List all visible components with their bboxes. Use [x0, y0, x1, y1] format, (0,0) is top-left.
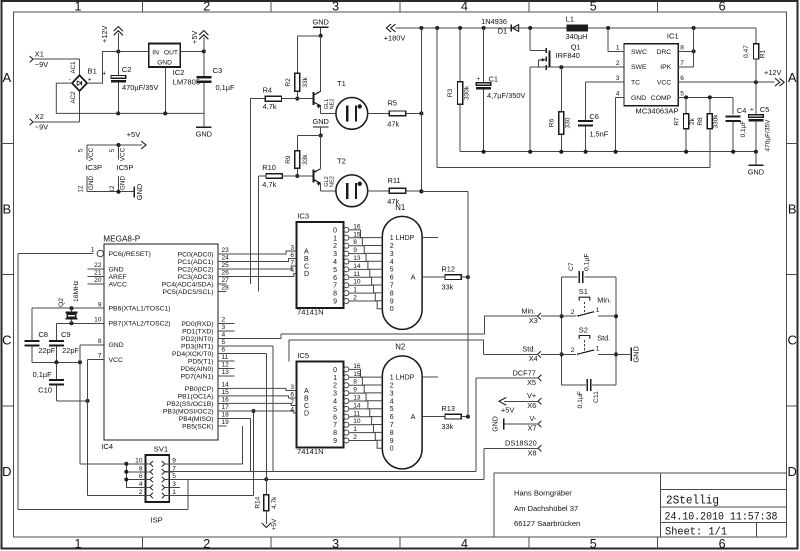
svg-text:VCC: VCC	[109, 357, 123, 364]
svg-text:3: 3	[222, 324, 226, 331]
svg-text:8: 8	[353, 379, 357, 386]
svg-text:2: 2	[571, 309, 575, 316]
svg-text:C: C	[2, 333, 11, 348]
svg-text:3: 3	[616, 75, 620, 82]
svg-text:1: 1	[333, 375, 337, 382]
svg-text:6: 6	[222, 347, 226, 354]
svg-text:MC34063AP: MC34063AP	[635, 107, 678, 116]
svg-text:R5: R5	[388, 99, 397, 108]
svg-text:15: 15	[222, 389, 230, 396]
svg-text:7: 7	[333, 283, 337, 290]
svg-text:2: 2	[333, 383, 337, 390]
svg-text:10: 10	[353, 279, 361, 286]
svg-text:C2: C2	[122, 65, 132, 74]
svg-text:Q2: Q2	[58, 298, 65, 307]
svg-text:C: C	[304, 403, 309, 410]
svg-text:IC5: IC5	[297, 351, 309, 360]
svg-text:21: 21	[94, 270, 102, 277]
svg-text:PB1(OC1A): PB1(OC1A)	[178, 393, 214, 400]
svg-text:C11: C11	[593, 391, 600, 403]
svg-text:0: 0	[333, 367, 337, 374]
svg-text:9: 9	[353, 387, 357, 394]
svg-text:A: A	[304, 388, 309, 395]
svg-text:~9V: ~9V	[35, 123, 48, 132]
svg-text:PD3(INT1): PD3(INT1)	[181, 343, 213, 350]
svg-text:5: 5	[333, 406, 337, 413]
svg-text:PD2(INT0): PD2(INT0)	[181, 336, 213, 343]
svg-text:2: 2	[353, 295, 357, 302]
svg-text:C10: C10	[38, 385, 52, 394]
svg-text:1: 1	[74, 537, 81, 551]
svg-text:0,1µF: 0,1µF	[577, 391, 584, 409]
svg-text:R9: R9	[285, 155, 292, 164]
svg-text:6: 6	[680, 75, 684, 82]
svg-text:16MHz: 16MHz	[73, 280, 80, 302]
svg-text:1,5nF: 1,5nF	[589, 129, 608, 138]
svg-text:7: 7	[290, 399, 294, 406]
svg-text:SV1: SV1	[154, 445, 168, 454]
svg-text:9: 9	[333, 299, 337, 306]
svg-text:4: 4	[290, 267, 294, 274]
svg-text:X4: X4	[529, 354, 538, 363]
svg-text:DS18S20: DS18S20	[505, 439, 537, 448]
svg-text:IC4: IC4	[101, 442, 113, 451]
svg-text:PD6(AIN0): PD6(AIN0)	[181, 366, 214, 373]
svg-text:ISP: ISP	[151, 515, 163, 524]
svg-text:GND: GND	[748, 168, 764, 177]
svg-text:AVCC: AVCC	[109, 281, 127, 288]
svg-text:LM7805: LM7805	[173, 78, 200, 87]
svg-text:R12: R12	[441, 265, 455, 274]
svg-text:4,7µF/350V: 4,7µF/350V	[487, 91, 525, 100]
svg-text:9: 9	[390, 298, 394, 305]
svg-text:5: 5	[680, 91, 684, 98]
svg-text:18: 18	[222, 412, 230, 419]
svg-text:1 LHDP: 1 LHDP	[390, 235, 415, 242]
svg-text:-: -	[69, 76, 71, 83]
svg-text:3: 3	[290, 384, 294, 391]
svg-text:V-: V-	[529, 414, 537, 423]
svg-text:PD4(XCK/T0): PD4(XCK/T0)	[172, 351, 214, 358]
svg-text:AC2: AC2	[70, 91, 77, 104]
svg-text:5: 5	[590, 537, 597, 551]
svg-text:T2: T2	[337, 156, 346, 165]
svg-text:D1: D1	[498, 27, 507, 36]
svg-text:R10: R10	[262, 163, 276, 172]
svg-text:47k: 47k	[387, 197, 399, 206]
svg-text:IC1: IC1	[667, 31, 679, 40]
svg-text:22: 22	[94, 262, 102, 269]
svg-text:PB3(MOSI/OC2): PB3(MOSI/OC2)	[163, 408, 214, 415]
svg-text:Min.: Min.	[521, 306, 535, 315]
svg-text:7: 7	[333, 422, 337, 429]
svg-text:B: B	[788, 201, 797, 216]
svg-text:C7: C7	[568, 262, 575, 271]
svg-text:12: 12	[78, 185, 85, 193]
svg-text:+: +	[750, 107, 754, 114]
svg-text:X3: X3	[529, 316, 538, 325]
svg-text:1: 1	[353, 287, 357, 294]
svg-text:DRC: DRC	[656, 49, 671, 56]
svg-text:GND: GND	[109, 342, 124, 349]
svg-text:PC1(ADC1): PC1(ADC1)	[178, 259, 214, 266]
svg-text:33k: 33k	[302, 154, 309, 165]
svg-text:4: 4	[616, 91, 620, 98]
svg-text:11: 11	[353, 271, 360, 278]
svg-text:2: 2	[353, 434, 357, 441]
svg-text:4: 4	[139, 481, 143, 488]
svg-text:3: 3	[390, 390, 394, 397]
svg-text:33k: 33k	[302, 76, 309, 87]
svg-text:6: 6	[290, 252, 294, 259]
svg-text:PB6(XTAL1/TOSC1): PB6(XTAL1/TOSC1)	[109, 306, 171, 313]
svg-text:13: 13	[353, 395, 361, 402]
svg-text:4: 4	[390, 259, 394, 266]
svg-text:28: 28	[222, 285, 230, 292]
svg-text:OUT: OUT	[164, 49, 178, 56]
svg-text:3: 3	[290, 245, 294, 252]
svg-text:PC6(/RESET): PC6(/RESET)	[109, 251, 151, 258]
svg-text:9: 9	[390, 438, 394, 445]
svg-text:1: 1	[333, 235, 337, 242]
svg-text:14: 14	[353, 402, 361, 409]
svg-text:10: 10	[353, 418, 361, 425]
svg-text:2: 2	[203, 0, 210, 14]
svg-text:470µF/35V: 470µF/35V	[122, 83, 158, 92]
svg-text:X5: X5	[527, 378, 536, 387]
svg-text:PC2(ADC2): PC2(ADC2)	[178, 266, 214, 273]
svg-text:GND: GND	[88, 176, 95, 191]
svg-text:14: 14	[222, 382, 230, 389]
svg-text:MEGA8-P: MEGA8-P	[103, 235, 140, 244]
svg-text:VCC: VCC	[657, 79, 671, 86]
svg-text:DCF77: DCF77	[512, 369, 535, 378]
svg-text:6: 6	[390, 275, 394, 282]
svg-text:B: B	[304, 396, 309, 403]
svg-text:+12V: +12V	[100, 25, 109, 43]
svg-text:R1: R1	[760, 49, 767, 58]
svg-text:X1: X1	[35, 49, 44, 58]
svg-text:1: 1	[172, 489, 176, 496]
svg-text:+5V: +5V	[127, 130, 142, 139]
svg-text:2: 2	[571, 347, 575, 354]
svg-text:5: 5	[222, 339, 226, 346]
svg-text:33k: 33k	[441, 282, 453, 291]
svg-text:6: 6	[333, 275, 337, 282]
svg-text:9: 9	[172, 457, 176, 464]
svg-text:0,1µF: 0,1µF	[33, 370, 53, 379]
svg-text:PD0(RXD): PD0(RXD)	[181, 321, 213, 328]
svg-text:Std.: Std.	[522, 345, 535, 354]
svg-text:Am Dachshübel 37: Am Dachshübel 37	[514, 504, 578, 513]
svg-text:X8: X8	[527, 448, 536, 457]
svg-text:6: 6	[333, 414, 337, 421]
svg-text:6: 6	[290, 392, 294, 399]
svg-text:4,7k: 4,7k	[263, 102, 277, 111]
svg-text:3: 3	[332, 537, 339, 551]
svg-text:Min.: Min.	[597, 295, 611, 304]
svg-text:17: 17	[222, 404, 230, 411]
svg-text:GND: GND	[196, 130, 212, 139]
svg-text:8: 8	[680, 45, 684, 52]
svg-text:4,7k: 4,7k	[271, 496, 278, 509]
svg-text:IC3: IC3	[297, 212, 309, 221]
svg-text:R3: R3	[447, 88, 454, 97]
svg-text:5: 5	[590, 0, 597, 14]
svg-text:5: 5	[390, 406, 394, 413]
svg-text:8: 8	[139, 465, 143, 472]
svg-text:8: 8	[353, 239, 357, 246]
svg-text:22pF: 22pF	[38, 346, 55, 355]
svg-text:7: 7	[290, 260, 294, 267]
svg-text:VCC: VCC	[120, 147, 127, 161]
svg-text:C1: C1	[489, 74, 498, 83]
svg-text:C8: C8	[38, 330, 48, 339]
svg-text:16: 16	[222, 397, 230, 404]
svg-text:GND: GND	[135, 184, 144, 200]
svg-text:7: 7	[390, 283, 394, 290]
svg-text:R13: R13	[441, 404, 455, 413]
svg-text:7: 7	[680, 60, 684, 67]
svg-text:+12V: +12V	[764, 68, 782, 77]
svg-text:1 LHDP: 1 LHDP	[390, 375, 415, 382]
svg-text:25: 25	[222, 262, 230, 269]
svg-text:11: 11	[222, 354, 229, 361]
svg-text:2Stellig: 2Stellig	[666, 495, 719, 508]
svg-text:VCC: VCC	[88, 147, 95, 161]
svg-text:4: 4	[390, 398, 394, 405]
svg-text:24: 24	[222, 255, 230, 262]
svg-text:9: 9	[98, 301, 102, 308]
svg-text:D: D	[304, 411, 309, 418]
svg-text:C4: C4	[737, 106, 746, 115]
svg-text:A: A	[788, 70, 797, 85]
svg-text:4: 4	[333, 259, 337, 266]
svg-text:PD1(TXD): PD1(TXD)	[182, 328, 213, 335]
svg-text:330k: 330k	[463, 85, 470, 100]
svg-text:5: 5	[78, 148, 85, 152]
svg-text:0,1µF: 0,1µF	[583, 253, 590, 271]
svg-text:13: 13	[353, 255, 361, 262]
svg-text:1: 1	[91, 247, 95, 254]
svg-text:A: A	[411, 414, 416, 421]
svg-text:74141N: 74141N	[297, 447, 324, 456]
svg-text:R4: R4	[263, 86, 272, 95]
svg-text:Sheet: 1/1: Sheet: 1/1	[665, 527, 727, 539]
svg-text:+: +	[102, 71, 106, 78]
svg-text:Hans Borngräber: Hans Borngräber	[514, 489, 572, 498]
svg-text:R7: R7	[674, 117, 681, 126]
svg-text:AC1: AC1	[70, 61, 77, 74]
svg-text:2: 2	[139, 489, 143, 496]
svg-text:S2: S2	[579, 326, 588, 335]
svg-text:4,7k: 4,7k	[262, 180, 276, 189]
svg-text:8: 8	[98, 338, 102, 345]
svg-text:TC: TC	[631, 79, 640, 86]
svg-text:15: 15	[353, 371, 361, 378]
svg-text:A: A	[2, 70, 11, 85]
svg-text:12: 12	[222, 362, 230, 369]
svg-text:0,1µF: 0,1µF	[740, 121, 747, 138]
svg-text:13: 13	[222, 369, 230, 376]
svg-text:1N4936: 1N4936	[481, 17, 507, 26]
svg-text:B1: B1	[88, 67, 97, 76]
svg-text:+5V: +5V	[190, 31, 199, 44]
svg-text:23: 23	[222, 247, 230, 254]
svg-text:GND: GND	[631, 95, 646, 102]
svg-text:4: 4	[461, 0, 468, 14]
svg-text:8: 8	[333, 291, 337, 298]
svg-text:PC4(ADC4/SDA): PC4(ADC4/SDA)	[162, 281, 214, 288]
svg-text:NE2: NE2	[329, 176, 335, 187]
svg-text:4: 4	[333, 399, 337, 406]
svg-text:26: 26	[222, 270, 230, 277]
svg-text:PD7(AIN1): PD7(AIN1)	[181, 373, 214, 380]
svg-text:PB0(ICP): PB0(ICP)	[185, 386, 214, 393]
svg-text:IC5P: IC5P	[117, 163, 134, 172]
svg-text:15: 15	[353, 231, 361, 238]
svg-text:X7: X7	[527, 424, 536, 433]
svg-text:C5: C5	[760, 105, 769, 114]
svg-text:A: A	[411, 275, 416, 282]
svg-text:6: 6	[719, 0, 726, 14]
svg-text:340µH: 340µH	[566, 32, 588, 41]
svg-text:GND: GND	[109, 266, 124, 273]
svg-text:IC3P: IC3P	[85, 163, 102, 172]
svg-text:3: 3	[333, 251, 337, 258]
svg-text:S1: S1	[579, 287, 588, 296]
svg-text:GND: GND	[312, 117, 328, 126]
svg-text:9: 9	[353, 247, 357, 254]
svg-text:6: 6	[719, 537, 726, 551]
svg-text:24.10.2010 11:57:38: 24.10.2010 11:57:38	[665, 512, 778, 524]
svg-text:0: 0	[390, 446, 394, 453]
svg-text:2: 2	[222, 317, 226, 324]
svg-text:COMP: COMP	[651, 95, 672, 102]
svg-text:0,47: 0,47	[743, 45, 750, 58]
svg-text:V+: V+	[527, 391, 536, 400]
svg-text:2k: 2k	[689, 117, 696, 125]
svg-text:SWE: SWE	[631, 64, 647, 71]
svg-text:66127 Saarbrücken: 66127 Saarbrücken	[514, 519, 580, 528]
svg-text:20: 20	[94, 277, 102, 284]
svg-text:PB2(SS/OC1B): PB2(SS/OC1B)	[167, 401, 214, 408]
svg-text:6: 6	[390, 414, 394, 421]
svg-text:X6: X6	[527, 401, 536, 410]
svg-text:10: 10	[94, 317, 102, 324]
svg-text:+: +	[88, 76, 92, 83]
svg-text:4: 4	[222, 332, 226, 339]
svg-text:PC3(ADC3): PC3(ADC3)	[178, 274, 214, 281]
svg-text:R14: R14	[255, 496, 262, 508]
svg-text:R11: R11	[388, 176, 401, 185]
svg-text:IC2: IC2	[173, 68, 185, 77]
svg-text:33k: 33k	[441, 422, 453, 431]
svg-text:PD5(T1): PD5(T1)	[188, 358, 214, 365]
svg-text:22pF: 22pF	[62, 346, 79, 355]
svg-text:GND: GND	[632, 346, 641, 362]
svg-text:2: 2	[203, 537, 210, 551]
svg-text:9: 9	[333, 438, 337, 445]
svg-text:B: B	[304, 256, 309, 263]
svg-text:C6: C6	[589, 112, 598, 121]
svg-text:C9: C9	[61, 330, 71, 339]
svg-text:PB7(XTAL2/TOSC2): PB7(XTAL2/TOSC2)	[109, 321, 171, 328]
svg-text:N2: N2	[395, 343, 405, 352]
svg-text:0: 0	[333, 227, 337, 234]
svg-text:A: A	[304, 249, 309, 256]
svg-text:+5V: +5V	[271, 518, 278, 530]
svg-text:2: 2	[390, 243, 394, 250]
svg-text:5: 5	[333, 267, 337, 274]
svg-text:IRF840: IRF840	[556, 51, 580, 60]
svg-text:R8: R8	[697, 117, 704, 126]
svg-text:19: 19	[222, 419, 230, 426]
svg-text:11: 11	[353, 410, 360, 417]
svg-text:27: 27	[222, 277, 230, 284]
svg-text:3: 3	[390, 251, 394, 258]
svg-text:PB4(MISO): PB4(MISO)	[179, 416, 214, 423]
svg-text:8: 8	[390, 290, 394, 297]
svg-text:PB5(SCK): PB5(SCK)	[182, 423, 213, 430]
svg-text:2: 2	[390, 383, 394, 390]
svg-text:C3: C3	[213, 66, 223, 75]
svg-text:C: C	[788, 333, 797, 348]
svg-text:R6: R6	[548, 118, 555, 127]
svg-text:3: 3	[332, 0, 339, 14]
svg-text:8: 8	[333, 430, 337, 437]
svg-text:330k: 330k	[713, 114, 720, 129]
svg-text:D: D	[2, 464, 11, 479]
svg-text:1: 1	[596, 345, 600, 352]
svg-text:3: 3	[333, 391, 337, 398]
svg-text:B: B	[2, 201, 11, 216]
svg-text:R2: R2	[285, 78, 292, 87]
svg-text:14: 14	[353, 263, 361, 270]
svg-text:0,1µF: 0,1µF	[216, 83, 236, 92]
svg-text:D: D	[788, 464, 797, 479]
svg-text:1: 1	[616, 45, 620, 52]
svg-text:NE2: NE2	[329, 99, 335, 110]
svg-text:AREF: AREF	[109, 274, 127, 281]
svg-text:16: 16	[353, 223, 361, 230]
svg-text:X2: X2	[35, 112, 44, 121]
svg-text:+180V: +180V	[384, 34, 406, 43]
svg-text:GND: GND	[120, 176, 127, 191]
svg-text:+: +	[476, 76, 480, 83]
svg-text:1: 1	[596, 307, 600, 314]
svg-text:+5V: +5V	[501, 406, 514, 415]
svg-text:Std.: Std.	[597, 334, 610, 343]
svg-text:5: 5	[390, 267, 394, 274]
svg-text:330: 330	[565, 117, 572, 128]
svg-text:D: D	[304, 271, 309, 278]
svg-text:GND: GND	[492, 416, 499, 432]
svg-text:C: C	[304, 264, 309, 271]
svg-text:GND: GND	[157, 60, 172, 67]
svg-text:L1: L1	[566, 14, 574, 23]
svg-text:IPK: IPK	[660, 64, 671, 71]
svg-text:3: 3	[172, 481, 176, 488]
svg-text:10: 10	[135, 457, 143, 464]
svg-text:74141N: 74141N	[297, 307, 324, 316]
svg-text:PC0(ADC0): PC0(ADC0)	[178, 251, 214, 258]
svg-text:470µF/35V: 470µF/35V	[764, 119, 771, 152]
svg-text:8: 8	[390, 430, 394, 437]
svg-text:PC5(ADC5/SCL): PC5(ADC5/SCL)	[163, 289, 214, 296]
svg-text:6: 6	[139, 473, 143, 480]
svg-text:5: 5	[109, 148, 116, 152]
